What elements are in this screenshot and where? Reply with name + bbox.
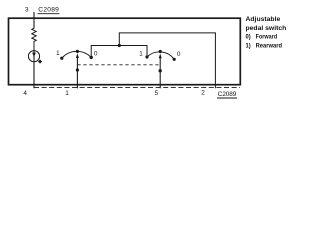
bracket tap junction: [118, 44, 121, 47]
svg-text:Forward: Forward: [256, 34, 278, 41]
svg-text:5: 5: [155, 90, 159, 97]
switch S1 arc: [62, 51, 91, 58]
resistor (motor winding): [32, 27, 36, 51]
svg-text:C2089: C2089: [218, 91, 237, 98]
svg-text:pedal switch: pedal switch: [246, 25, 287, 32]
switch S2 apex junction: [159, 50, 162, 53]
svg-text:Adjustable: Adjustable: [246, 16, 281, 23]
switch S1 apex junction: [76, 50, 79, 53]
switch S1 right contact (0): [90, 56, 93, 59]
switch S2 wiper arrow: [159, 54, 162, 59]
motor arrow: [32, 53, 36, 57]
svg-text:0: 0: [177, 51, 181, 58]
connector C2089 bottom dashed line: [34, 86, 240, 88]
motor M1 (adjustable pedal motor): [28, 51, 39, 62]
svg-text:Rearward: Rearward: [256, 42, 282, 49]
switch S1 wiper arrow: [76, 53, 79, 58]
switch S2 left contact (1): [145, 55, 148, 58]
svg-text:0: 0: [94, 50, 98, 57]
switch S2 wiper wire to pin 5: [159, 58, 161, 88]
svg-text:1): 1): [246, 42, 251, 49]
switch S1 wiper junction dot: [76, 68, 79, 71]
svg-text:2: 2: [201, 90, 205, 97]
C2089 bottom underline: [217, 97, 237, 99]
svg-text:0): 0): [246, 34, 251, 41]
bracket wire joining S1-0 and S2-1: [91, 46, 147, 58]
C2089 top underline: [38, 13, 60, 15]
pin 3 tick (top connector): [33, 12, 35, 28]
switch S1 left contact (1): [60, 57, 63, 60]
svg-text:C2089: C2089: [38, 7, 59, 14]
mechanical link dashed line: [77, 64, 158, 66]
svg-text:3: 3: [25, 7, 29, 14]
switch S2 right contact (0): [173, 58, 176, 61]
svg-text:1: 1: [65, 90, 69, 97]
motor diamond marker: [38, 59, 42, 63]
outer component box: [9, 18, 241, 85]
wire tap to pin 2: [119, 33, 215, 88]
svg-text:4: 4: [23, 90, 27, 97]
svg-text:1: 1: [56, 50, 60, 57]
wire motor to pin 4: [33, 51, 35, 89]
switch S2 wiper junction dot: [159, 69, 162, 72]
svg-text:1: 1: [139, 50, 143, 57]
switch S2 arc: [147, 52, 174, 59]
switch S1 wiper wire to pin 1: [76, 58, 78, 89]
